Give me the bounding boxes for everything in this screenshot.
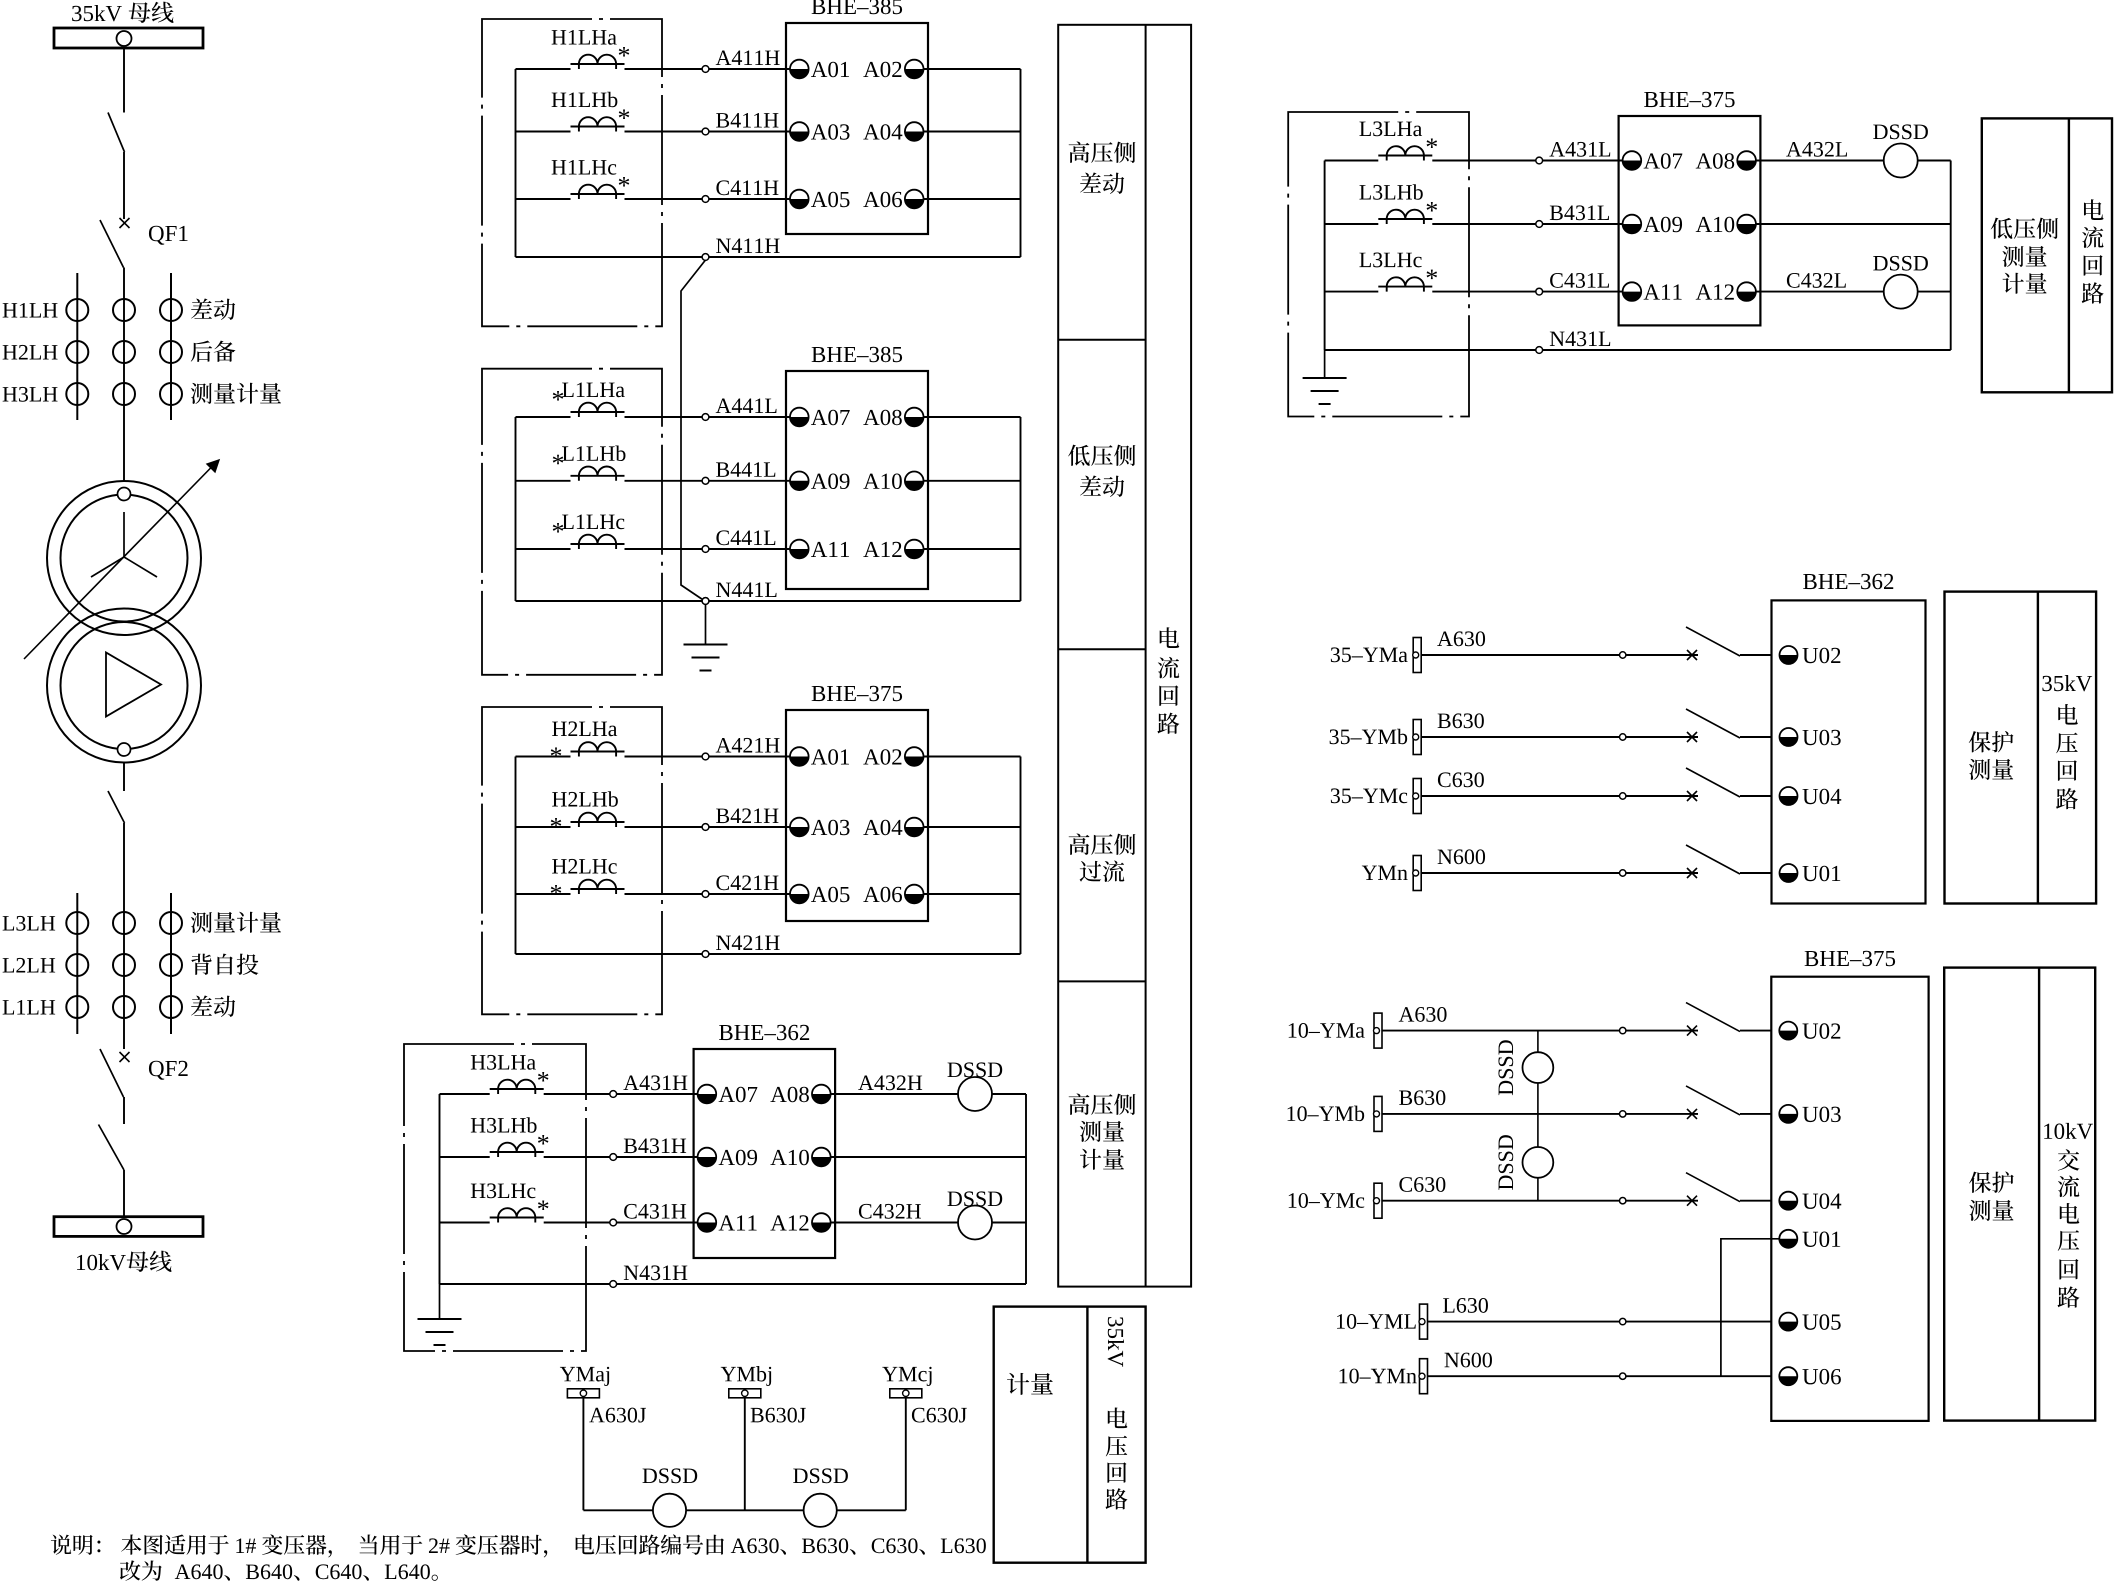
wire label A630 (1399, 1007, 1447, 1022)
terminal pin A04 (905, 818, 924, 837)
voltmeter DSSD 2 (B-C) (1523, 1147, 1554, 1178)
wire label A441L (716, 398, 777, 413)
label protection measurement 10kV (1969, 1171, 2014, 1220)
test terminal on C630 (1620, 793, 1626, 799)
pin label A07 (1644, 153, 1683, 169)
transformer HV terminal dot (118, 488, 131, 501)
terminal pin A02 (905, 60, 924, 79)
wire label N600 (1438, 849, 1485, 864)
CT column line right L-side (170, 893, 172, 1034)
wire label A630J (589, 1408, 646, 1423)
wire BHE-385 right to bus (924, 131, 1021, 133)
pin label U01 (1802, 866, 1840, 882)
terminal C441L (702, 546, 709, 553)
CT coil H3LHa (471, 1055, 549, 1094)
terminal A421H (702, 753, 709, 760)
label QF1 (149, 226, 188, 245)
terminal B441L (702, 477, 709, 484)
wire label N421H (716, 935, 780, 950)
voltage terminal YMaj (567, 1389, 599, 1398)
wire label N431H (624, 1265, 688, 1280)
label current loop vertical right (2082, 199, 2104, 303)
CT H2LH phase circles (66, 341, 182, 363)
circuit breaker QF1 (100, 218, 130, 268)
terminal pin U02 (1779, 1022, 1797, 1040)
terminal pin A11 (790, 540, 809, 559)
terminal N411H (702, 254, 709, 261)
test terminal on L630 (1620, 1318, 1626, 1324)
label HV side overcurrent (1069, 833, 1136, 882)
pin label A06 (863, 192, 902, 208)
terminal pin A03 (790, 122, 809, 141)
CT L2LH phase circles (66, 954, 182, 976)
relay BHE–375 box (786, 710, 928, 921)
terminal B431L (1536, 221, 1543, 228)
box jiliang 35kV voltage loop (994, 1307, 1146, 1563)
wire QS3 to 10kV busbar (123, 1170, 125, 1217)
pin label U04 (1802, 789, 1841, 805)
terminal pin A09 (698, 1148, 717, 1167)
terminal pin A09 (1623, 215, 1642, 234)
pin label U06 (1802, 1369, 1840, 1385)
L1LH current-loop right bus wire (1020, 417, 1022, 601)
voltage transformer secondary tie wire (1537, 1031, 1539, 1201)
wire L1LH phase b row (516, 480, 571, 482)
ground at H3LH screen (439, 1284, 441, 1319)
terminal pin A11 (698, 1213, 717, 1232)
test terminal on B630 (1620, 1111, 1626, 1117)
pin label A01 (811, 749, 849, 765)
label YMn (1362, 866, 1408, 880)
fuse-switch on C630 (1686, 768, 1740, 801)
pin label A08 (863, 410, 901, 426)
wire label C431H (624, 1204, 686, 1219)
label celiang jiliang (metering) H3LH (191, 383, 281, 404)
terminal pin A11 (1623, 282, 1642, 301)
terminal A431L (1536, 157, 1543, 164)
wire QF1 through CT group to transformer (123, 268, 125, 482)
CT coil H3LHc (471, 1183, 549, 1222)
transformer T1 HV winding (47, 481, 201, 635)
CT coil H2LHb (551, 791, 625, 827)
wire N600 (1421, 872, 1698, 874)
wire A630 (1382, 1030, 1698, 1032)
label HV side differential (1069, 141, 1136, 194)
pin label A06 (863, 887, 902, 903)
label DSSD rotated 2 (1498, 1135, 1513, 1190)
label DSSD meter 1 (643, 1468, 698, 1483)
wire label A630 (1437, 631, 1485, 646)
terminal pin A01 (790, 747, 809, 766)
CT L1LH phase circles (66, 996, 182, 1018)
terminal A431H (610, 1091, 617, 1098)
terminal pin A07 (698, 1085, 717, 1104)
wire label B441L (716, 462, 775, 477)
transformer T1 LV winding (47, 609, 201, 763)
voltage terminal 10–YML (1419, 1304, 1428, 1339)
wire B row to bus (831, 1156, 1026, 1158)
CT group H1LH screen box (dash-dot) (482, 19, 662, 326)
pin label A07 (811, 410, 850, 426)
wire A630 (1421, 654, 1698, 656)
label YMaj (560, 1367, 609, 1386)
relay BHE–385 box (786, 23, 928, 234)
relay BHE-375 (10kV VT) label (1805, 951, 1895, 966)
pin label U03 (1802, 1107, 1840, 1123)
relay BHE–385 label (812, 347, 902, 363)
wire L3LH phase a row (1325, 160, 1379, 162)
wire B630 (1382, 1113, 1698, 1115)
fuse-switch on A630 (1686, 1003, 1740, 1036)
terminal pin A05 (790, 190, 809, 209)
voltage terminal YMcj (890, 1389, 922, 1398)
wire label C441L (716, 530, 775, 545)
terminal C431H (610, 1219, 617, 1226)
busbar tap circle (117, 31, 132, 46)
label H3LH (3, 387, 58, 402)
label L1LH (3, 1000, 56, 1015)
energy meter DSSD on C432H (958, 1206, 992, 1240)
wire H3LH phase b row (440, 1156, 490, 1158)
terminal pin U03 (1780, 728, 1798, 746)
CT coil L1LHc (553, 514, 625, 549)
pin label U02 (1802, 648, 1840, 664)
voltage terminal 10–YMb (1374, 1096, 1383, 1131)
terminal pin A12 (1737, 282, 1756, 301)
terminal pin U01 (1779, 1230, 1797, 1248)
terminal pin U02 (1780, 646, 1798, 664)
terminal pin A08 (905, 408, 924, 427)
pin label A03 (811, 820, 849, 836)
CT group L1LH screen box (dash-dot) (482, 369, 662, 675)
label protection measurement (1969, 731, 2014, 780)
pin label A11 (1644, 284, 1682, 299)
wire label N411H (716, 238, 780, 253)
label 35kV voltage loop vertical (2042, 675, 2092, 809)
wire N411H to ground jog (681, 260, 706, 601)
pin label U05 (1802, 1314, 1840, 1330)
ground at L3LH screen (1324, 350, 1326, 378)
relay BHE–375 box (1619, 116, 1761, 325)
wire L1LH neutral row (516, 600, 1021, 602)
terminal B431H (610, 1154, 617, 1161)
label DSSD meter 2 (793, 1468, 848, 1483)
label LV side differential (1068, 445, 1135, 497)
test terminal on N600 (1620, 1373, 1626, 1379)
summary box protection measurement 10kV AC voltage loop (1944, 968, 2095, 1421)
terminal B411H (702, 128, 709, 135)
pin label A11 (719, 1215, 757, 1230)
label 35–YMb (1330, 729, 1408, 744)
H2LH current-loop right bus wire (1020, 757, 1022, 955)
pin label A12 (770, 1215, 808, 1230)
pin label U03 (1802, 730, 1840, 746)
terminal N431H (610, 1281, 617, 1288)
voltage terminal 35–YMb (1413, 720, 1422, 755)
test terminal on C630 (1620, 1198, 1626, 1204)
wire A432H with DSSD meter (831, 1093, 1026, 1095)
fuse-switch on C630 (1686, 1173, 1740, 1206)
terminal pin A10 (1737, 215, 1756, 234)
terminal pin U05 (1779, 1313, 1797, 1331)
wire label B431H (624, 1138, 686, 1153)
wire label N441L (716, 582, 776, 597)
wire transformer to disconnect QS2 (123, 763, 125, 792)
wire H2LH neutral row (516, 953, 1021, 955)
wire L3LH phase b row (1325, 223, 1379, 225)
wire label C630 (1438, 772, 1484, 787)
fuse-switch on B630 (1686, 709, 1740, 742)
voltage terminal 10–YMa (1374, 1013, 1383, 1048)
wire C630J drop (905, 1398, 907, 1511)
L1LH secondary left bus wire (515, 417, 517, 601)
wire label C421H (716, 875, 778, 890)
wire label B431L (1550, 205, 1609, 220)
pin label A04 (863, 124, 902, 140)
transformer delta symbol (106, 653, 161, 717)
terminal C411H (702, 196, 709, 203)
pin label U02 (1802, 1023, 1840, 1039)
voltage terminal YMbj (729, 1389, 761, 1398)
pin label A02 (863, 749, 901, 765)
label QF2 (149, 1061, 188, 1080)
relay BHE–362 box (694, 1049, 836, 1258)
wire B row to bus (1756, 223, 1951, 225)
pin label A12 (1696, 284, 1734, 299)
relay BHE–362 label (719, 1025, 809, 1040)
relay BHE–385 label (812, 0, 902, 14)
wire label C630J (912, 1408, 967, 1423)
terminal pin U04 (1780, 787, 1798, 805)
wire H2LH phase c row (516, 893, 571, 895)
voltage terminal 10–YMn (1419, 1359, 1428, 1394)
label jiliang (metering) (1007, 1373, 1053, 1395)
test terminal on A630 (1620, 652, 1626, 658)
summary box LV side metering / current loop (1982, 118, 2112, 392)
fuse-switch on B630 (1686, 1086, 1740, 1119)
label voltage loop vertical (1106, 1408, 1128, 1510)
label 35–YMa (1331, 647, 1408, 662)
CT H3LH phase circles (66, 383, 182, 405)
test terminal on N600 (1620, 870, 1626, 876)
voltage terminal YMn (1413, 856, 1422, 891)
metering bus wire (583, 1509, 905, 1511)
wire label B421H (716, 808, 778, 823)
CT coil L1LHa (553, 382, 625, 417)
pin label A04 (863, 820, 902, 836)
pin label A03 (811, 124, 849, 140)
CT column line right H-side (170, 273, 172, 420)
fuse-switch on N600 (1686, 845, 1740, 878)
wire label A432L (1786, 142, 1847, 157)
pin label A08 (1696, 153, 1734, 169)
terminal pin A07 (790, 408, 809, 427)
wire L3LH neutral row (1325, 349, 1951, 351)
CT group L3LH screen box (dash-dot) (1288, 112, 1469, 417)
energy meter DSSD on A432L (1884, 144, 1918, 178)
terminal pin A06 (905, 885, 924, 904)
wire H1LH phase c row (516, 198, 571, 200)
terminal N441L junction (702, 598, 709, 605)
L3LH secondary left bus wire (1324, 161, 1326, 351)
wire H1LH phase b row (516, 131, 571, 133)
relay BHE–375 label (812, 686, 902, 701)
terminal pin A07 (1623, 151, 1642, 170)
CT coil L1LHb (553, 446, 626, 481)
wire label B630J (751, 1408, 806, 1423)
disconnect switch QS2 blade (108, 791, 125, 823)
ground at N441L (705, 605, 707, 645)
wire L1LH phase a row (516, 416, 571, 418)
test terminal on A630 (1620, 1027, 1626, 1033)
terminal pin U03 (1779, 1105, 1797, 1123)
fuse-switch on A630 (1686, 627, 1740, 660)
wire BHE-375 right to bus (924, 893, 1021, 895)
wire label A411H (716, 50, 780, 65)
terminal pin A04 (905, 122, 924, 141)
terminal N441L (702, 598, 709, 605)
energy meter DSSD on A432H (958, 1077, 992, 1111)
wire label C431L (1550, 273, 1609, 288)
wire BHE-385 right to bus (924, 416, 1021, 418)
transformer wye symbol (91, 512, 157, 577)
relay BHE-362 (35kV VT) label (1803, 574, 1893, 589)
pin label A07 (719, 1087, 758, 1103)
wire H3LH phase a row (440, 1093, 490, 1095)
wire N600 (1428, 1375, 1772, 1377)
terminal pin A09 (790, 472, 809, 491)
voltage terminal 35–YMc (1413, 779, 1422, 814)
CT coil L3LHa (1359, 121, 1437, 160)
label H2LH (3, 345, 58, 360)
energy meter DSSD on C432L (1884, 275, 1918, 309)
H3LH secondary left bus wire (439, 1094, 441, 1284)
H2LH secondary left bus wire (515, 757, 517, 955)
terminal A411H (702, 66, 709, 73)
10kV busbar (54, 1217, 203, 1237)
wire label A431H (623, 1075, 687, 1090)
relay BHE–375 label (1644, 92, 1734, 107)
CT group H3LH screen box (dash-dot) (404, 1044, 586, 1351)
wire label L630 (1443, 1298, 1488, 1313)
pin label A09 (1644, 217, 1682, 233)
node 35kV busbar label (72, 2, 173, 23)
wire H2LH phase a row (516, 756, 571, 758)
terminal pin A10 (812, 1148, 831, 1167)
label DSSD rotated 1 (1498, 1040, 1513, 1095)
wire label B630 (1399, 1090, 1445, 1105)
wire label N431L (1550, 331, 1610, 346)
35kV busbar (54, 28, 203, 48)
energy meter DSSD 2 on metering bus (804, 1494, 837, 1527)
wire L630 (1428, 1321, 1772, 1323)
transformer LV terminal dot (118, 743, 131, 756)
voltage terminal 35–YMa (1413, 638, 1422, 673)
transformer regulation arrow (24, 460, 219, 659)
wire BHE-385 right to bus (924, 480, 1021, 482)
label 10–YMa (1289, 1023, 1365, 1038)
CT coil H1LHa (552, 30, 630, 69)
wire H3LH phase c row (440, 1222, 490, 1224)
H1LH current-loop right bus wire (1020, 69, 1022, 257)
terminal B421H (702, 824, 709, 831)
terminal pin A02 (905, 747, 924, 766)
wire label C432H (859, 1204, 921, 1219)
CT coil H3LHb (471, 1117, 549, 1157)
voltmeter DSSD 1 (A-B) (1523, 1052, 1554, 1083)
wire QS1 to QF1 (123, 152, 125, 219)
pin label A01 (811, 62, 849, 78)
terminal pin A12 (812, 1213, 831, 1232)
pin label U01 (1802, 1232, 1840, 1248)
wire BHE-385 right to bus (924, 68, 1021, 70)
pin label A02 (863, 62, 901, 78)
10kV busbar tap circle (117, 1219, 132, 1234)
wire QS2 to L-side CT group (123, 823, 125, 1049)
label HV side metering (1069, 1093, 1136, 1169)
terminal pin U01 (1780, 864, 1798, 882)
terminal pin A10 (905, 472, 924, 491)
label chadong (differential) H1LH (191, 299, 235, 320)
terminal pin A03 (790, 818, 809, 837)
pin label A09 (811, 474, 849, 490)
label beizitou (backup auto-switch) L2LH (191, 954, 258, 975)
CT coil H1LHc (552, 160, 630, 199)
label DSSD A-phase meter (948, 1062, 1003, 1077)
relay BHE-362 (35kV VT) box (1772, 600, 1926, 903)
test terminal on B630 (1620, 734, 1626, 740)
wire BHE-375 right to bus (924, 826, 1021, 828)
terminal C421H (702, 891, 709, 898)
pin label A05 (811, 192, 849, 208)
CT coil L3LHc (1359, 253, 1437, 292)
label L2LH (3, 958, 56, 973)
CT H1LH phase circles (66, 299, 182, 321)
energy meter DSSD 1 on metering bus (653, 1494, 686, 1527)
node 10kV busbar label (77, 1251, 172, 1272)
CT column line left L-side (76, 893, 78, 1034)
wire QF2 to QS3 (123, 1097, 125, 1124)
terminal A441L (702, 414, 709, 421)
H1LH secondary left bus wire (515, 69, 517, 257)
terminal N421H (702, 951, 709, 958)
terminal pin U06 (1779, 1367, 1797, 1385)
terminal pin A06 (905, 190, 924, 209)
summary box protection measurement 35kV voltage loop (1945, 592, 2097, 904)
wire label A431L (1549, 142, 1610, 157)
pin label A10 (770, 1150, 808, 1166)
CT group H2LH screen box (dash-dot) (482, 707, 662, 1014)
label YMcj (882, 1367, 931, 1386)
note text line 2 (120, 1560, 438, 1580)
pin label A08 (770, 1087, 808, 1103)
wire label A432H (858, 1075, 922, 1090)
voltage terminal 10–YMc (1374, 1183, 1383, 1218)
terminal pin A05 (790, 885, 809, 904)
CT coil L3LHb (1359, 184, 1437, 224)
label houbei (backup) H2LH (191, 341, 236, 362)
terminal N431L (1536, 347, 1543, 354)
wire label B411H (716, 113, 778, 128)
wire B630J drop (744, 1398, 746, 1511)
relay BHE–385 box (786, 371, 928, 589)
pin label A05 (811, 887, 849, 903)
H3LH current-loop right bus wire (1025, 1094, 1027, 1284)
wire U01 tie to N600 (1721, 1239, 1779, 1376)
wire H3LH neutral row (440, 1283, 1027, 1285)
wire label C432L (1787, 273, 1846, 288)
CT coil H1LHb (552, 92, 630, 132)
